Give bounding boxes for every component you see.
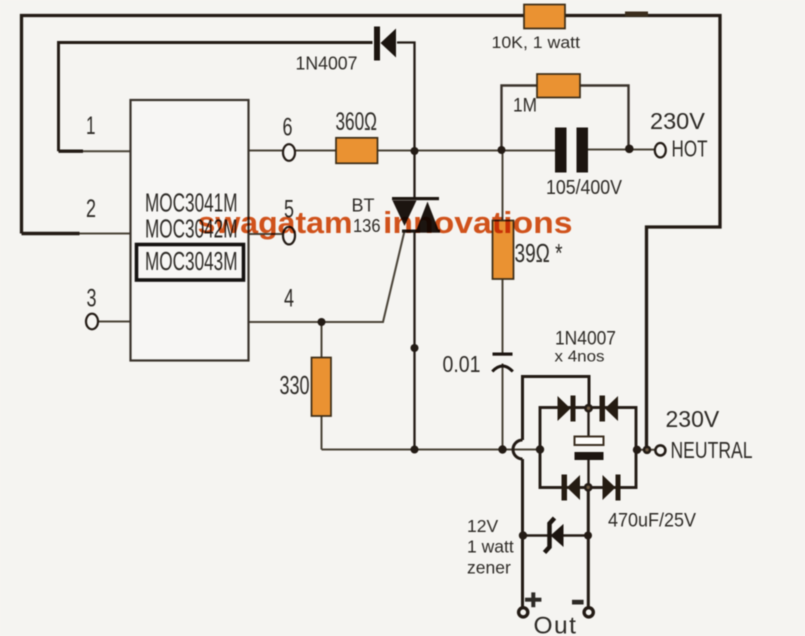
svg-text:1N4007: 1N4007 bbox=[555, 329, 616, 350]
svg-text:3: 3 bbox=[87, 285, 97, 313]
svg-text:swagatam: swagatam bbox=[198, 205, 353, 240]
svg-text:360Ω: 360Ω bbox=[336, 108, 378, 136]
svg-text:1M: 1M bbox=[513, 95, 537, 117]
svg-text:4: 4 bbox=[284, 285, 294, 313]
svg-text:1N4007: 1N4007 bbox=[296, 54, 358, 74]
svg-text:470uF/25V: 470uF/25V bbox=[608, 510, 696, 532]
svg-text:Out: Out bbox=[534, 613, 578, 636]
svg-text:230V: 230V bbox=[666, 406, 720, 432]
svg-text:x 4nos: x 4nos bbox=[555, 349, 605, 366]
svg-text:BT: BT bbox=[352, 196, 375, 216]
svg-text:39Ω *: 39Ω * bbox=[515, 240, 563, 268]
svg-text:105/400V: 105/400V bbox=[546, 176, 622, 199]
svg-text:NEUTRAL: NEUTRAL bbox=[671, 437, 753, 463]
svg-text:330: 330 bbox=[280, 372, 310, 400]
svg-text:HOT: HOT bbox=[672, 136, 708, 162]
svg-text:6: 6 bbox=[283, 114, 293, 142]
svg-text:2: 2 bbox=[86, 195, 96, 223]
svg-text:1: 1 bbox=[86, 112, 96, 140]
svg-text:1 watt: 1 watt bbox=[467, 537, 514, 557]
svg-text:136: 136 bbox=[353, 215, 381, 236]
svg-text:230V: 230V bbox=[650, 108, 705, 134]
svg-text:innovations: innovations bbox=[383, 205, 573, 240]
svg-text:MOC3043M: MOC3043M bbox=[145, 246, 238, 276]
svg-text:0.01: 0.01 bbox=[443, 351, 481, 377]
svg-text:12V: 12V bbox=[467, 516, 498, 536]
svg-text:zener: zener bbox=[467, 558, 511, 578]
svg-text:10K, 1 watt: 10K, 1 watt bbox=[492, 33, 581, 52]
